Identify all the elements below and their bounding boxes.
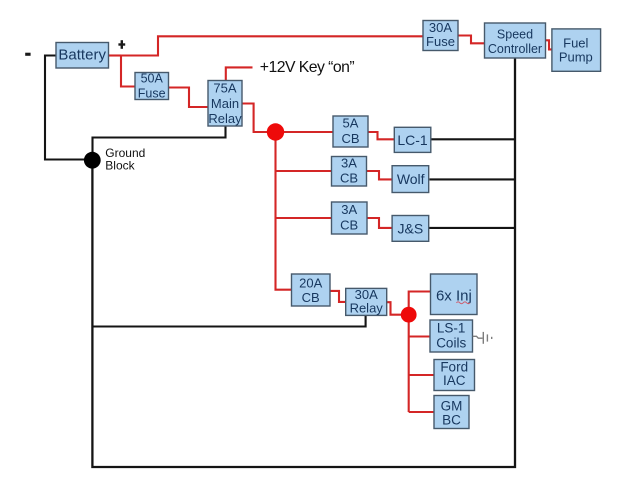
svg-text:Wolf: Wolf: [397, 171, 425, 187]
block LS-1 Coils: [430, 320, 473, 352]
wire: 75A relay to +12V key on (red): [226, 67, 253, 81]
svg-text:CB: CB: [340, 171, 358, 186]
svg-text:Relay: Relay: [208, 111, 242, 126]
svg-text:IAC: IAC: [443, 373, 466, 388]
wire: second 3A CB to J&S (red): [367, 218, 392, 228]
wire: 75A relay bottom to ground block (black): [93, 126, 226, 154]
breaker CB4: 20A CB: [292, 274, 331, 306]
wire: ground bus left vertical, bottom run, right vertical (black): [92, 58, 515, 467]
wire: battery positive stub (red): [108, 54, 121, 56]
svg-text:Controller: Controller: [488, 42, 542, 56]
svg-text:Battery: Battery: [58, 47, 106, 64]
svg-text:LC-1: LC-1: [397, 132, 428, 148]
svg-text:Fuse: Fuse: [138, 87, 166, 101]
relay K2: 30A Relay: [346, 287, 387, 316]
wire: Wolf to right ground bus (black): [430, 178, 516, 180]
node B: red accessory junction dot: [401, 307, 417, 323]
wire: speed controller to fuel pump (red): [546, 40, 552, 49]
svg-text:30A: 30A: [429, 20, 452, 35]
wire: branch to second 3A CB (red): [276, 217, 332, 219]
wire: battery negative to ground block (black): [45, 56, 85, 160]
node A: red power junction dot: [267, 123, 284, 140]
relay K1: 75A Main Relay: [208, 81, 242, 127]
svg-text:J&S: J&S: [398, 221, 424, 237]
label: battery minus terminal: [25, 53, 30, 56]
breaker CB3: 3A CB: [332, 202, 368, 234]
wire: junction B down feed (red): [408, 321, 410, 412]
label: +12V Key on: [260, 59, 355, 76]
wire: 5A CB to LC-1 (red): [368, 132, 394, 139]
svg-text:Block: Block: [105, 159, 135, 173]
svg-text:+12V Key “on”: +12V Key “on”: [260, 59, 355, 76]
wire: branch to GM BC (red): [409, 411, 434, 413]
svg-text:LS-1: LS-1: [437, 320, 466, 335]
wire: 30A relay to junction node B (red): [387, 302, 402, 315]
wire: LC-1 to right ground bus (black): [431, 138, 515, 140]
svg-text:Fuse: Fuse: [426, 34, 455, 49]
svg-text:CB: CB: [341, 131, 359, 146]
block J&S: [392, 216, 429, 242]
wire: 50A fuse to 75A main relay (red): [169, 88, 209, 108]
wire: 30A relay bottom to ground bus (black): [93, 315, 366, 326]
wire: J&S to right ground bus (black): [429, 227, 515, 229]
block Wolf: [392, 166, 429, 193]
block GM BC: [434, 396, 469, 429]
svg-text:CB: CB: [340, 218, 358, 233]
wire: 75A relay to junction node A (red): [242, 104, 268, 133]
svg-text:75A: 75A: [213, 81, 236, 96]
label: Ground Block: [105, 146, 145, 172]
fuse F2: 30A Fuse: [423, 20, 458, 51]
wire: branch to LS-1 coils (red): [409, 335, 430, 337]
block Speed Controller: [485, 23, 546, 58]
wire: 20A CB to 30A relay (red): [330, 291, 346, 302]
svg-text:20A: 20A: [299, 276, 322, 291]
wire: positive split down to 50A fuse (red): [121, 55, 135, 87]
svg-text:Ford: Ford: [440, 359, 468, 374]
svg-text:Pump: Pump: [559, 49, 593, 64]
svg-text:50A: 50A: [141, 72, 164, 86]
svg-text:Main: Main: [211, 96, 239, 111]
wire: top bus to 30A fuse (red): [120, 36, 423, 55]
svg-text:Relay: Relay: [350, 301, 384, 316]
wire: junction A to 5A CB (red): [283, 131, 333, 133]
node: ground block junction dot: [84, 152, 101, 169]
wire: junction B up to 6x Inj (red): [409, 292, 431, 309]
svg-text:Speed: Speed: [497, 27, 533, 41]
ground: chassis ground symbol at LS-1 coils: [473, 332, 492, 344]
svg-text:CB: CB: [302, 290, 320, 305]
block 6x Inj: [431, 274, 478, 315]
svg-text:3A: 3A: [341, 202, 357, 217]
svg-text:GM: GM: [441, 399, 463, 414]
label: battery plus terminal: [118, 40, 125, 49]
breaker CB1: 5A CB: [333, 116, 368, 147]
block Fuel Pump: [552, 29, 601, 71]
wire: branch to Ford IAC (red): [409, 374, 434, 376]
block Ford IAC: [434, 359, 475, 390]
svg-text:5A: 5A: [343, 116, 359, 131]
svg-text:3A: 3A: [341, 155, 357, 170]
svg-text:Coils: Coils: [436, 335, 466, 350]
block LC-1: [394, 127, 431, 152]
wire: branch to first 3A CB (red): [276, 170, 332, 172]
fuse F1: 50A Fuse: [135, 72, 169, 101]
breaker CB2: 3A CB: [332, 155, 367, 186]
wire: 30A fuse to speed controller (red): [458, 36, 485, 44]
wire: first 3A CB to Wolf (red): [367, 171, 393, 179]
svg-text:BC: BC: [442, 412, 461, 427]
wire: junction A down to 20A CB (red): [276, 139, 292, 290]
block Battery: [56, 43, 109, 69]
